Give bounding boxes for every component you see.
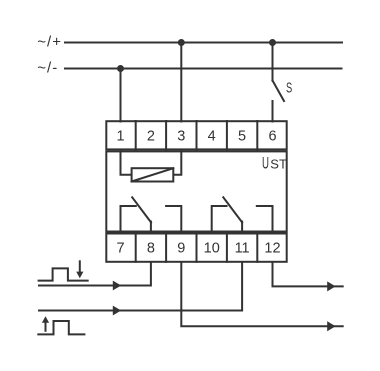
coil rectifier box <box>132 168 174 181</box>
contact K1 fixed arm to terminal 9 <box>166 206 181 233</box>
svg-text:U: U <box>262 155 269 173</box>
arrowhead trigger input 1 <box>113 281 121 291</box>
pulse symbol falling edge <box>39 268 88 280</box>
wire ~/+ supply line <box>65 42 342 44</box>
svg-text:5: 5 <box>238 129 246 145</box>
junction dot on ~/+ at switch S drop <box>269 39 276 46</box>
terminal divider 1/2 <box>135 121 137 150</box>
svg-text:1: 1 <box>116 129 124 145</box>
arrowhead output 1 <box>327 281 335 291</box>
wire ~/+ to switch S <box>272 43 274 81</box>
contact K1 fixed arm from terminal 7 <box>121 206 136 233</box>
terminal divider 4/5 <box>226 121 228 150</box>
rising edge arrow head <box>42 316 49 323</box>
wire coil to terminal 3 <box>174 151 181 175</box>
falling edge arrow head <box>76 272 83 279</box>
terminal divider 11/12 <box>256 233 258 262</box>
svg-text:12: 12 <box>264 241 280 257</box>
terminal strip bottom outline <box>106 234 286 262</box>
wire ~/+ to terminal 3 <box>180 43 182 122</box>
wire terminal 1 to coil <box>121 151 132 175</box>
svg-text:11: 11 <box>235 241 250 257</box>
terminal divider 5/6 <box>256 121 258 150</box>
arrowhead trigger input 2 <box>113 306 121 316</box>
switch S blade <box>273 81 285 102</box>
falling edge arrow shaft <box>79 261 81 272</box>
terminal divider 2/3 <box>165 121 167 150</box>
svg-text:~/-: ~/- <box>37 60 58 77</box>
wire terminal 9 to output 2 <box>181 263 342 327</box>
contact K1 blade <box>132 197 151 222</box>
terminal divider 3/4 <box>196 121 198 150</box>
svg-text:3: 3 <box>177 129 185 145</box>
junction dot on ~/- at terminal 1 drop <box>117 65 124 72</box>
contact K1 common stub terminal 8 <box>150 222 152 234</box>
svg-text:~/+: ~/+ <box>37 34 62 51</box>
svg-text:7: 7 <box>116 241 124 257</box>
terminal divider 9/10 <box>196 233 198 262</box>
contact K2 blade <box>223 197 242 222</box>
wire trigger input 1 to terminal 8 <box>39 263 151 286</box>
contact K2 fixed arm from terminal 10 <box>212 206 227 233</box>
rising edge arrow shaft <box>45 323 47 331</box>
terminal strip top outline <box>106 121 286 149</box>
relay body outline <box>106 151 286 231</box>
contact K2 common stub terminal 11 <box>241 222 243 234</box>
wire ~/- to terminal 1 <box>120 69 122 122</box>
coil diagonal <box>132 168 174 181</box>
terminal divider 7/8 <box>135 233 137 262</box>
svg-text:10: 10 <box>204 241 220 257</box>
svg-text:2: 2 <box>147 129 155 145</box>
svg-text:S: S <box>286 80 292 97</box>
terminal divider 10/11 <box>226 233 228 262</box>
terminal divider 8/9 <box>165 233 167 262</box>
pulse symbol rising edge <box>38 321 84 334</box>
wire switch S to terminal 6 <box>272 101 274 122</box>
wire ~/- supply line <box>65 68 342 70</box>
wire terminal 12 to output 1 <box>273 263 343 287</box>
junction dot on ~/+ at terminal 3 drop <box>178 39 185 46</box>
svg-text:4: 4 <box>208 129 216 145</box>
svg-text:8: 8 <box>147 241 155 257</box>
svg-text:9: 9 <box>177 241 185 257</box>
wire trigger input 2 to terminal 11 <box>39 263 242 311</box>
svg-text:ST: ST <box>270 157 287 172</box>
arrowhead output 2 <box>327 321 335 331</box>
contact K2 fixed arm to terminal 12 <box>257 206 273 233</box>
svg-text:6: 6 <box>268 129 276 145</box>
